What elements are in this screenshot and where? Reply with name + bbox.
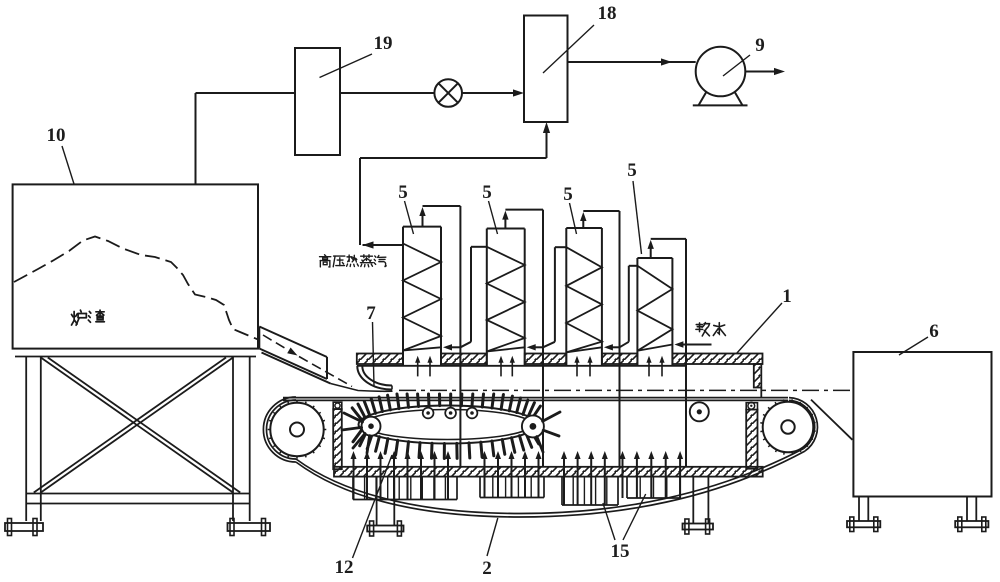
heat exchanger 5 unit 4 shell xyxy=(637,257,672,259)
belt wrap right pulley xyxy=(789,398,817,452)
hopper left foot xyxy=(5,523,43,531)
deck gap up-arrows xyxy=(648,360,650,376)
cascade pipe to previous unit xyxy=(471,246,487,248)
svg-text:9: 9 xyxy=(755,35,765,56)
belt wrap left pulley xyxy=(263,397,296,462)
svg-text:18: 18 xyxy=(598,3,617,24)
right pulley xyxy=(763,402,814,453)
steam riser from HX1 to vessel 18 xyxy=(359,158,361,245)
valve (circle-X) xyxy=(434,79,462,107)
chute extension line to belt xyxy=(331,384,393,392)
hopper support frame top bar xyxy=(15,356,256,358)
heat exchanger 5 unit 3 shell xyxy=(566,227,602,229)
drum top rollers xyxy=(423,408,434,419)
hopper frame bottom band xyxy=(26,493,250,495)
bin 6 xyxy=(853,352,991,497)
feed chute from hopper xyxy=(259,327,327,358)
fan 9 xyxy=(696,47,746,97)
cascade pipe to previous unit xyxy=(629,265,638,267)
svg-text:5: 5 xyxy=(398,182,408,203)
pin drum pins xyxy=(532,406,540,419)
text luzha (slag) xyxy=(71,310,86,325)
hopper frame legs xyxy=(25,357,27,522)
deck gap up-arrows xyxy=(417,360,419,376)
bin 6 right leg xyxy=(966,497,968,522)
svg-text:1: 1 xyxy=(782,286,792,307)
svg-text:5: 5 xyxy=(482,182,492,203)
curved guide 7 xyxy=(357,366,392,390)
idler roller xyxy=(690,402,709,421)
deck right end block xyxy=(754,364,762,388)
vessel 19 (scrubber) xyxy=(295,48,340,155)
heat exchanger 5 unit 4 circulation loop / downcomer xyxy=(650,245,652,258)
text gaoya-rezhengqi (high pressure hot steam) xyxy=(320,255,331,267)
wire hopper-to-scrubber vertical xyxy=(195,93,197,185)
svg-text:15: 15 xyxy=(611,541,630,562)
wire hopper-to-scrubber horizontal xyxy=(196,92,296,94)
svg-text:6: 6 xyxy=(929,321,939,342)
machine right leg xyxy=(692,477,694,524)
air nozzle up-arrows in chamber xyxy=(353,457,355,500)
wire valve-to-18 with arrow xyxy=(462,92,516,94)
drum right end wheel xyxy=(522,415,544,437)
cascade pipe to previous unit xyxy=(555,246,566,248)
belt bottom sag run xyxy=(296,451,805,517)
slag flow dash-dot arrow in chute xyxy=(263,335,288,350)
pin drum 12 body xyxy=(359,406,537,444)
wire 18-to-fan with arrow xyxy=(568,61,696,63)
hopper right foot xyxy=(228,523,271,531)
high-pressure steam outlet arrow xyxy=(363,244,404,246)
svg-text:7: 7 xyxy=(366,303,376,324)
air distribution boxes 15 below plate xyxy=(352,477,354,500)
svg-text:10: 10 xyxy=(47,125,66,146)
furnace deck hatched band xyxy=(357,354,403,365)
text ruanshui (soft water) xyxy=(696,323,710,336)
right chamber wall (hatched) xyxy=(746,410,757,469)
bin 6 left leg xyxy=(858,497,860,522)
heat exchanger 5 unit 2 coil xyxy=(487,247,525,352)
heat exchanger 5 unit 1 coil xyxy=(403,244,441,351)
hopper frame X braces xyxy=(41,358,233,493)
heat exchanger 5 unit 3 coil xyxy=(566,247,602,352)
svg-text:19: 19 xyxy=(374,33,393,54)
bottom plate (hatched) xyxy=(334,467,763,477)
dash-dot centerline of conveyor xyxy=(399,389,852,391)
heat exchanger 5 unit 3 circulation loop / downcomer xyxy=(582,217,584,228)
wire 19-to-valve xyxy=(340,92,434,94)
heat exchanger 5 unit 1 shell xyxy=(403,226,441,228)
machine left leg xyxy=(376,477,378,526)
svg-text:5: 5 xyxy=(563,184,573,205)
soft water inlet stub xyxy=(686,344,712,346)
belt top run xyxy=(283,397,788,399)
drum left end wheel xyxy=(362,417,381,436)
slag pile dashed contour xyxy=(14,237,258,340)
heat exchanger 5 unit 4 coil xyxy=(637,266,672,351)
fan outlet arrow xyxy=(745,71,774,73)
heat exchanger 5 unit 1 circulation loop / downcomer xyxy=(422,212,424,227)
vessel 18 (steam drum) xyxy=(524,16,568,123)
hopper 10 box xyxy=(13,184,258,348)
left chamber wall (hatched) xyxy=(333,409,342,469)
svg-text:12: 12 xyxy=(335,557,354,578)
left pulley xyxy=(270,403,323,456)
discharge chute line to bin 6 xyxy=(811,400,852,440)
deck gap up-arrows xyxy=(500,360,502,376)
svg-text:2: 2 xyxy=(482,558,492,579)
chamber top line xyxy=(357,365,687,367)
svg-text:5: 5 xyxy=(627,160,637,181)
heat exchanger 5 unit 2 shell xyxy=(487,228,525,230)
deck gap up-arrows xyxy=(576,360,578,376)
heat exchanger 5 unit 2 circulation loop / downcomer xyxy=(504,216,506,229)
